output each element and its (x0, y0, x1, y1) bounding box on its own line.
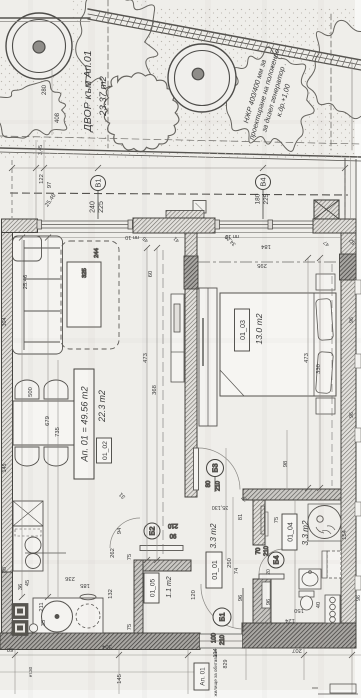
mid room chains (146, 248, 148, 560)
svg-text:01_02: 01_02 (102, 441, 109, 460)
svg-text:473: 473 (304, 353, 310, 363)
svg-text:96: 96 (356, 595, 361, 601)
svg-text:96: 96 (349, 317, 355, 323)
svg-text:304: 304 (101, 643, 111, 649)
svg-text:23.37 m2: 23.37 m2 (98, 75, 109, 116)
washing machine circles (325, 595, 340, 623)
svg-text:262: 262 (110, 548, 116, 558)
bath cabinet (327, 551, 341, 578)
bed (220, 293, 336, 396)
tv cabinet living (171, 294, 184, 382)
SECTION:LABELS (74, 309, 358, 696)
wall bathroom left upper (253, 500, 265, 545)
svg-text:304: 304 (2, 318, 8, 327)
wall bottom exterior left (0, 633, 200, 650)
apartment main label (74, 369, 94, 479)
carpet dashed (61, 241, 119, 349)
terrace dim row (12, 167, 345, 169)
svg-text:225: 225 (98, 201, 105, 213)
door D1 entrance (B1) (201, 584, 243, 629)
bedroom chains (307, 258, 309, 488)
wall storage left (134, 560, 143, 633)
svg-text:пп 10: пп 10 (125, 234, 139, 240)
wall bathroom top (243, 489, 341, 500)
tree T1 (6, 13, 72, 79)
SECTION:WALLS (0, 158, 361, 650)
tick marks on dim chains (12, 235, 355, 659)
svg-text:210: 210 (167, 522, 178, 528)
room 01_05 tag (144, 573, 159, 603)
svg-text:01_03: 01_03 (238, 320, 247, 340)
svg-text:36: 36 (18, 584, 24, 590)
shower (308, 504, 341, 541)
svg-text:74: 74 (234, 567, 240, 574)
svg-text:124: 124 (284, 617, 294, 623)
legend bottom right (312, 684, 358, 694)
wall center pillar (between windows) (166, 211, 204, 219)
svg-text:90: 90 (169, 532, 176, 538)
svg-text:325: 325 (82, 268, 88, 278)
svg-text:3.3 m2: 3.3 m2 (301, 520, 310, 545)
wall right exterior (341, 233, 356, 648)
bush blob top-middle (76, 0, 158, 98)
svg-text:1.1 m2: 1.1 m2 (166, 576, 173, 598)
SECTION:DOORS (110, 448, 284, 645)
vertical dashed property lines (107, 0, 109, 148)
window W1 glazing (34, 220, 136, 233)
svg-text:120: 120 (191, 590, 197, 600)
SECTION:GARDEN (0, 0, 361, 161)
SECTION:TERRACE (9, 140, 348, 220)
horizontal dim line under windows (13, 237, 185, 239)
bush blob right-edge (307, 20, 361, 118)
bush blob left-bottom (0, 81, 67, 138)
svg-text:35: 35 (41, 620, 47, 626)
svg-text:75: 75 (127, 624, 133, 630)
entrance threshold gap (200, 634, 243, 648)
bath chains (294, 500, 296, 630)
svg-text:207: 207 (292, 647, 302, 653)
wall right dark segment (340, 254, 357, 280)
stove dark squares (12, 604, 38, 636)
svg-text:368: 368 (152, 385, 158, 395)
wall right stub above corner (345, 158, 356, 219)
SECTION:FURNITURE (12, 236, 341, 636)
bottom apartment tag (194, 663, 209, 690)
dining table (13, 401, 75, 445)
wall storage top (134, 560, 191, 571)
node B4 bubble (255, 175, 271, 220)
kitchen bottom counter (33, 594, 103, 633)
room 01_04 tag (282, 514, 297, 550)
sofa (13, 236, 63, 354)
svg-text:180: 180 (255, 193, 262, 204)
svg-text:Б2: Б2 (148, 526, 157, 535)
bedroom dash-dot (198, 261, 338, 263)
svg-text:211: 211 (39, 602, 45, 611)
svg-text:Б1: Б1 (218, 612, 227, 621)
coffee table (67, 262, 101, 327)
svg-text:100: 100 (212, 632, 218, 643)
right edge notch blocks (355, 280, 361, 590)
wall bathroom left lower / shaft (253, 579, 271, 629)
svg-text:94: 94 (117, 527, 123, 534)
svg-text:122: 122 (39, 174, 45, 184)
svg-text:236: 236 (65, 575, 75, 581)
wall central dark segment (184, 256, 198, 289)
svg-text:60: 60 (7, 646, 13, 652)
pier with X brace (314, 200, 339, 219)
toilet (299, 591, 314, 610)
mirror strips on bath wall (261, 506, 265, 534)
wall left dark segment (kitchen) (2, 572, 13, 633)
svg-text:96: 96 (238, 595, 244, 601)
door D4 bath (B4) (259, 574, 284, 579)
door D2 kitchen (B2) (140, 546, 183, 551)
diagonal retaining band (88, 9, 361, 70)
svg-text:60: 60 (148, 271, 154, 277)
svg-text:735: 735 (55, 427, 61, 437)
svg-text:829: 829 (223, 660, 229, 669)
wall central partition (185, 233, 197, 497)
svg-text:96: 96 (349, 412, 355, 418)
bath sink (299, 569, 321, 589)
svg-text:35,130: 35,130 (212, 504, 229, 510)
room 01_02 tag (97, 438, 112, 463)
svg-text:132: 132 (108, 589, 114, 599)
svg-text:97: 97 (47, 182, 53, 188)
fence double line (0, 148, 361, 157)
svg-text:210: 210 (220, 634, 226, 645)
chairs (15, 380, 68, 466)
svg-text:Б3: Б3 (211, 463, 220, 472)
svg-text:75: 75 (127, 554, 133, 560)
terrace column block (193, 201, 206, 214)
svg-text:145: 145 (117, 674, 123, 684)
svg-text:01_04: 01_04 (288, 522, 295, 542)
tree T2 (168, 44, 236, 112)
terrace dashed edge (10, 193, 348, 195)
svg-text:22.3 m2: 22.3 m2 (97, 390, 107, 423)
wardrobe bedroom (199, 288, 217, 426)
svg-text:210: 210 (216, 480, 222, 491)
wall bottom exterior right (242, 623, 356, 648)
SECTION:DIMS (0, 238, 361, 695)
node B1 bubble (90, 176, 106, 220)
svg-text:679: 679 (45, 416, 51, 426)
hall chains (225, 448, 227, 560)
svg-text:154: 154 (342, 529, 348, 539)
wall left exterior (2, 219, 13, 640)
svg-text:75: 75 (274, 517, 280, 523)
svg-text:01_05: 01_05 (150, 579, 157, 598)
svg-text:150: 150 (294, 607, 304, 613)
svg-text:81: 81 (238, 514, 244, 520)
bush blob center-right (223, 47, 314, 152)
svg-text:88: 88 (2, 567, 8, 573)
svg-text:98: 98 (283, 461, 289, 467)
wall top-left corner block (2, 219, 38, 233)
svg-text:3,45: 3,45 (38, 145, 44, 155)
kitchen counter left (13, 501, 66, 571)
svg-text:жилище за обитаване: жилище за обитаване (213, 649, 218, 696)
long vertical dim chains living room (21, 238, 23, 597)
room 01_03 tag (235, 309, 250, 351)
wall right-top corner (313, 219, 356, 252)
centre dash line living (162, 250, 164, 555)
svg-text:280: 280 (42, 84, 48, 95)
yard stipple ground (0, 55, 150, 147)
bush blob mid-lower (104, 73, 179, 152)
door D3 hall (B3) (194, 448, 199, 490)
svg-text:70: 70 (256, 547, 262, 554)
svg-text:145: 145 (2, 464, 8, 473)
bottom margin vlines (14, 649, 16, 694)
nightstands (316, 274, 335, 290)
window W2 glazing (212, 220, 316, 233)
top-left boundary line (0, 17, 90, 19)
